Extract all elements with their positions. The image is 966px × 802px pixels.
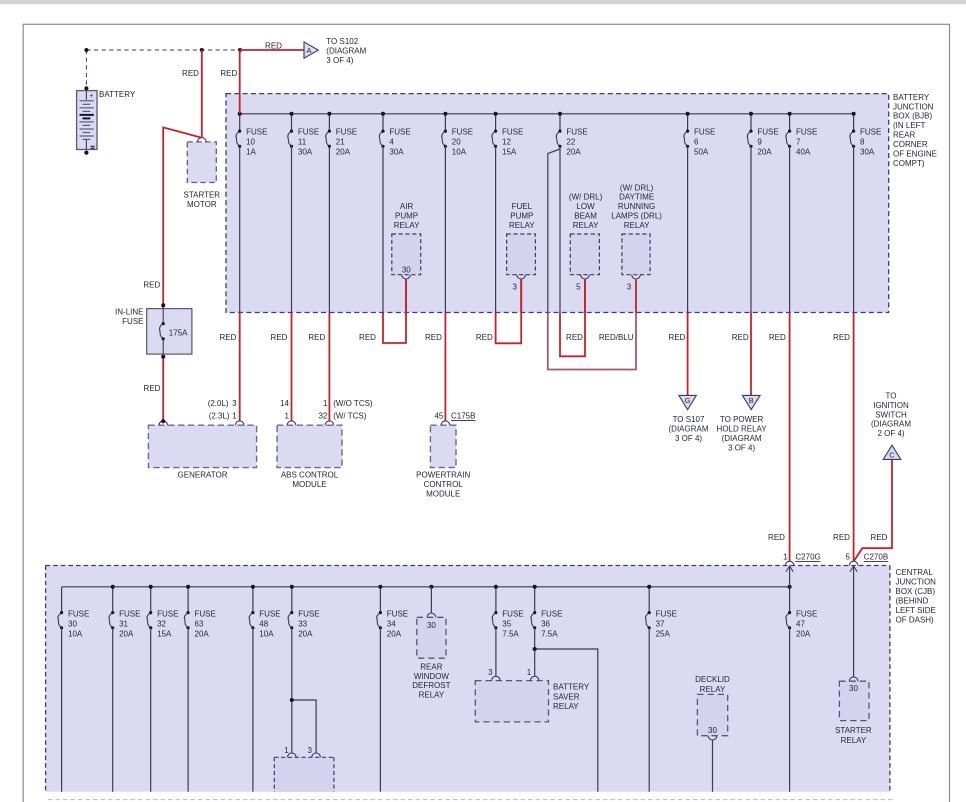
svg-text:(2.3L): (2.3L) [209, 412, 230, 421]
svg-text:20: 20 [452, 138, 461, 147]
svg-text:7.5A: 7.5A [541, 629, 558, 638]
svg-text:TO S107: TO S107 [673, 415, 705, 424]
svg-text:BOX (CJB): BOX (CJB) [896, 587, 936, 596]
svg-text:35: 35 [502, 619, 511, 628]
svg-text:JUNCTION: JUNCTION [893, 102, 934, 111]
svg-text:RELAY: RELAY [624, 221, 650, 230]
svg-text:RUNNING: RUNNING [618, 202, 655, 211]
svg-text:CONTROL: CONTROL [424, 480, 464, 489]
svg-text:8: 8 [860, 138, 865, 147]
svg-text:FUSE: FUSE [298, 128, 319, 137]
svg-text:1: 1 [527, 668, 532, 677]
svg-text:BATTERY: BATTERY [99, 90, 136, 99]
svg-text:RELAY: RELAY [700, 685, 726, 694]
svg-text:34: 34 [387, 619, 396, 628]
svg-text:RED: RED [476, 333, 493, 342]
svg-text:CORNER: CORNER [893, 140, 928, 149]
svg-text:FUSE: FUSE [119, 609, 140, 618]
svg-text:1A: 1A [246, 148, 256, 157]
svg-text:15A: 15A [157, 629, 172, 638]
svg-text:A: A [306, 46, 311, 55]
svg-text:15A: 15A [502, 148, 517, 157]
svg-text:RELAY: RELAY [573, 221, 599, 230]
svg-text:1: 1 [323, 399, 328, 408]
svg-text:3: 3 [627, 282, 632, 291]
svg-text:12: 12 [502, 138, 511, 147]
svg-text:30: 30 [427, 621, 436, 630]
svg-text:5: 5 [846, 553, 851, 562]
svg-text:LEFT SIDE: LEFT SIDE [896, 606, 936, 615]
svg-text:PUMP: PUMP [395, 212, 418, 221]
svg-text:B: B [749, 396, 754, 405]
svg-text:RED: RED [425, 333, 442, 342]
svg-text:RED: RED [220, 69, 237, 78]
svg-text:20A: 20A [796, 629, 811, 638]
svg-text:WINDOW: WINDOW [414, 672, 450, 681]
svg-text:BEAM: BEAM [574, 212, 597, 221]
svg-text:21: 21 [336, 138, 345, 147]
svg-text:3 OF 4): 3 OF 4) [728, 443, 755, 452]
svg-text:RELAY: RELAY [553, 702, 579, 711]
svg-text:HOLD RELAY: HOLD RELAY [717, 425, 768, 434]
svg-text:SAVER: SAVER [553, 692, 580, 701]
svg-text:(W/O TCS): (W/O TCS) [333, 399, 373, 408]
svg-text:LOW: LOW [576, 202, 595, 211]
svg-text:48: 48 [259, 619, 268, 628]
svg-text:(W/ TCS): (W/ TCS) [333, 412, 367, 421]
svg-text:FUSE: FUSE [452, 128, 473, 137]
svg-text:PUMP: PUMP [510, 212, 533, 221]
svg-text:FUSE: FUSE [122, 317, 143, 326]
svg-text:20A: 20A [298, 629, 313, 638]
svg-text:BOX (BJB): BOX (BJB) [893, 112, 932, 121]
svg-text:5: 5 [576, 282, 581, 291]
svg-text:GENERATOR: GENERATOR [178, 470, 228, 479]
svg-text:175A: 175A [169, 328, 188, 337]
svg-text:TO POWER: TO POWER [720, 415, 764, 424]
svg-text:20A: 20A [387, 629, 402, 638]
svg-text:C: C [889, 450, 895, 459]
svg-text:FUSE: FUSE [796, 128, 817, 137]
svg-text:DEFROST: DEFROST [412, 681, 450, 690]
svg-text:JUNCTION: JUNCTION [896, 578, 937, 587]
svg-text:1: 1 [783, 553, 788, 562]
svg-text:6: 6 [694, 138, 699, 147]
svg-text:RED: RED [265, 42, 282, 51]
svg-text:(2.0L): (2.0L) [208, 399, 229, 408]
svg-text:STARTER: STARTER [183, 191, 220, 200]
svg-text:TO S102: TO S102 [326, 37, 358, 46]
svg-text:RED: RED [769, 333, 786, 342]
svg-text:FUSE: FUSE [502, 609, 523, 618]
svg-text:30A: 30A [860, 148, 875, 157]
svg-text:FUSE: FUSE [389, 128, 410, 137]
svg-text:63: 63 [195, 619, 204, 628]
svg-text:32: 32 [157, 619, 166, 628]
svg-text:(DIAGRAM: (DIAGRAM [871, 420, 911, 429]
svg-text:IGNITION: IGNITION [873, 401, 909, 410]
svg-text:1: 1 [284, 746, 289, 755]
svg-text:30: 30 [708, 726, 717, 735]
svg-text:FUSE: FUSE [157, 609, 178, 618]
svg-text:40A: 40A [796, 148, 811, 157]
svg-text:(W/ DRL): (W/ DRL) [620, 183, 654, 192]
svg-text:(IN LEFT: (IN LEFT [893, 121, 926, 130]
svg-text:FUSE: FUSE [656, 609, 677, 618]
svg-text:32: 32 [318, 412, 327, 421]
svg-text:9: 9 [757, 138, 762, 147]
svg-text:RELAY: RELAY [394, 221, 420, 230]
svg-text:RED: RED [144, 384, 161, 393]
svg-text:4: 4 [389, 138, 394, 147]
svg-text:(DIAGRAM: (DIAGRAM [722, 434, 762, 443]
svg-text:RED: RED [219, 333, 236, 342]
svg-text:RELAY: RELAY [419, 690, 445, 699]
svg-text:FUEL: FUEL [512, 202, 533, 211]
svg-text:COMPT): COMPT) [893, 159, 925, 168]
svg-text:FUSE: FUSE [860, 128, 881, 137]
svg-text:FUSE: FUSE [757, 128, 778, 137]
svg-text:3 OF 4): 3 OF 4) [675, 434, 702, 443]
svg-text:TO: TO [886, 392, 897, 401]
svg-text:(DIAGRAM: (DIAGRAM [669, 425, 709, 434]
svg-text:RED: RED [359, 333, 376, 342]
svg-text:37: 37 [656, 619, 665, 628]
svg-text:FUSE: FUSE [541, 609, 562, 618]
svg-text:3: 3 [513, 282, 518, 291]
svg-text:RELAY: RELAY [509, 221, 535, 230]
svg-text:2 OF 4): 2 OF 4) [877, 429, 904, 438]
svg-text:STARTER: STARTER [835, 726, 872, 735]
svg-text:RED: RED [271, 333, 288, 342]
svg-text:20A: 20A [195, 629, 210, 638]
svg-text:MOTOR: MOTOR [187, 200, 217, 209]
svg-text:FUSE: FUSE [298, 609, 319, 618]
svg-text:22: 22 [566, 138, 575, 147]
svg-text:1: 1 [285, 412, 290, 421]
svg-text:FUSE: FUSE [502, 128, 523, 137]
svg-text:(W/ DRL): (W/ DRL) [569, 193, 603, 202]
svg-text:45: 45 [434, 412, 443, 421]
svg-text:FUSE: FUSE [68, 609, 89, 618]
svg-text:LAMPS (DRL): LAMPS (DRL) [611, 212, 662, 221]
svg-text:7: 7 [796, 138, 801, 147]
svg-text:FUSE: FUSE [387, 609, 408, 618]
svg-text:RED: RED [566, 333, 583, 342]
svg-text:DAYTIME: DAYTIME [619, 193, 654, 202]
svg-text:3: 3 [488, 668, 493, 677]
svg-text:FUSE: FUSE [195, 609, 216, 618]
svg-text:FUSE: FUSE [796, 609, 817, 618]
svg-text:ABS CONTROL: ABS CONTROL [281, 470, 339, 479]
svg-text:RED: RED [182, 69, 199, 78]
svg-text:10A: 10A [259, 629, 274, 638]
svg-text:10A: 10A [452, 148, 467, 157]
svg-text:RED: RED [143, 281, 160, 290]
svg-text:30: 30 [849, 684, 858, 693]
svg-text:33: 33 [298, 619, 307, 628]
svg-text:C175B: C175B [451, 412, 475, 421]
svg-text:SWITCH: SWITCH [875, 410, 907, 419]
svg-text:1: 1 [232, 412, 237, 421]
svg-text:31: 31 [119, 619, 128, 628]
svg-text:47: 47 [796, 619, 805, 628]
svg-text:30A: 30A [298, 148, 313, 157]
svg-text:3: 3 [232, 399, 237, 408]
svg-text:20A: 20A [119, 629, 134, 638]
svg-text:C270G: C270G [795, 553, 820, 562]
svg-text:30A: 30A [389, 148, 404, 157]
svg-text:DECKLID: DECKLID [695, 675, 730, 684]
svg-text:RED: RED [732, 333, 749, 342]
svg-text:+: + [89, 93, 93, 100]
svg-text:10: 10 [246, 138, 255, 147]
svg-text:(DIAGRAM: (DIAGRAM [326, 47, 366, 56]
svg-text:OF DASH): OF DASH) [896, 615, 935, 624]
svg-text:20A: 20A [336, 148, 351, 157]
svg-text:11: 11 [298, 138, 307, 147]
svg-text:BATTERY: BATTERY [553, 683, 590, 692]
svg-text:BATTERY: BATTERY [893, 93, 930, 102]
svg-text:IN-LINE: IN-LINE [115, 308, 143, 317]
svg-text:(BEHIND: (BEHIND [896, 597, 929, 606]
svg-text:30: 30 [402, 266, 411, 275]
svg-text:REAR: REAR [893, 131, 915, 140]
svg-text:RED: RED [833, 533, 850, 542]
svg-text:20A: 20A [566, 148, 581, 157]
svg-text:POWERTRAIN: POWERTRAIN [416, 470, 470, 479]
svg-text:RED: RED [669, 333, 686, 342]
svg-text:FUSE: FUSE [336, 128, 357, 137]
svg-text:CENTRAL: CENTRAL [896, 568, 934, 577]
svg-text:14: 14 [280, 399, 289, 408]
svg-text:C270B: C270B [864, 553, 888, 562]
svg-text:AIR: AIR [400, 202, 414, 211]
svg-text:FUSE: FUSE [246, 128, 267, 137]
svg-text:FUSE: FUSE [259, 609, 280, 618]
svg-text:OF ENGINE: OF ENGINE [893, 150, 937, 159]
svg-text:MODULE: MODULE [292, 480, 326, 489]
svg-text:25A: 25A [656, 629, 671, 638]
svg-text:MODULE: MODULE [426, 489, 460, 498]
svg-text:G: G [685, 396, 691, 405]
svg-text:RED: RED [833, 333, 850, 342]
svg-text:3 OF 4): 3 OF 4) [326, 56, 353, 65]
svg-text:FUSE: FUSE [566, 128, 587, 137]
svg-text:RED/BLU: RED/BLU [599, 333, 634, 342]
svg-text:FUSE: FUSE [694, 128, 715, 137]
svg-text:50A: 50A [694, 148, 709, 157]
svg-text:36: 36 [541, 619, 550, 628]
svg-text:RELAY: RELAY [841, 736, 867, 745]
svg-text:RED: RED [871, 533, 888, 542]
svg-text:RED: RED [308, 333, 325, 342]
svg-text:30: 30 [68, 619, 77, 628]
svg-text:20A: 20A [757, 148, 772, 157]
svg-text:10A: 10A [68, 629, 83, 638]
svg-text:REAR: REAR [420, 663, 442, 672]
svg-text:7.5A: 7.5A [502, 629, 519, 638]
svg-text:3: 3 [308, 746, 313, 755]
svg-text:RED: RED [768, 533, 785, 542]
